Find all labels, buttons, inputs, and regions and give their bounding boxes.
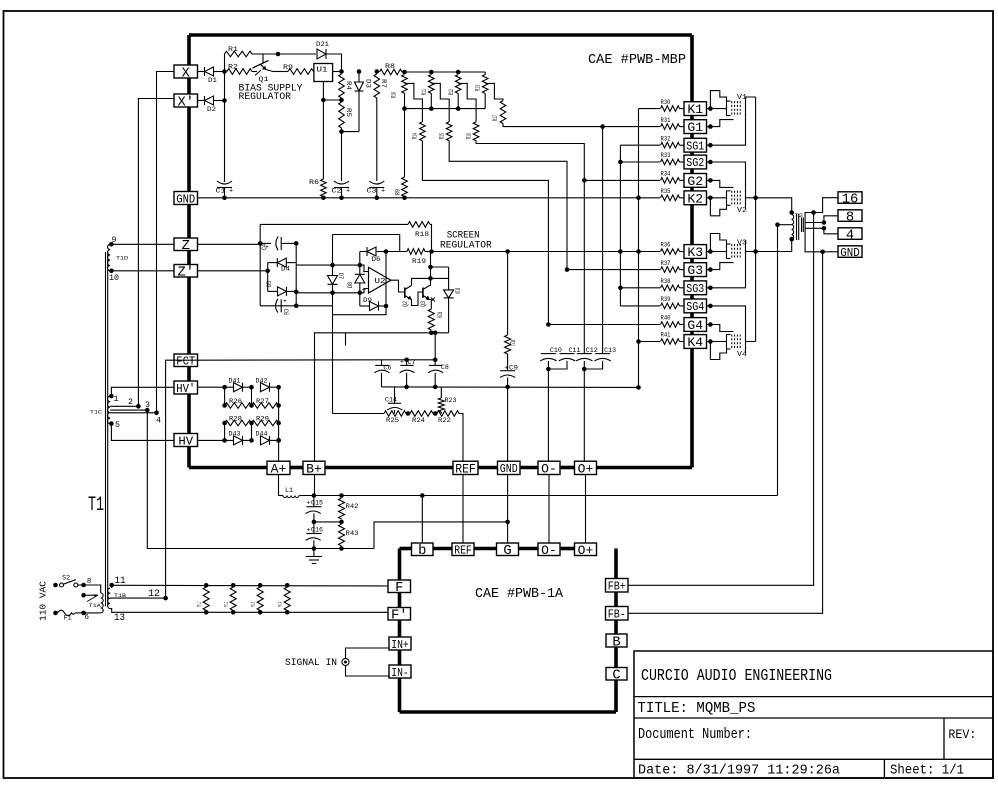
- svg-text:F: F: [395, 581, 403, 596]
- svg-text:13: 13: [114, 613, 125, 624]
- node Z to C4: [258, 241, 263, 246]
- port 4: [838, 228, 862, 240]
- svg-text:R4: R4: [345, 81, 352, 90]
- stub C5: [345, 333, 347, 346]
- capacitor C7: [404, 358, 409, 363]
- wire R22 to REF: [459, 414, 463, 462]
- svg-text:V4: V4: [737, 351, 748, 359]
- wire up to R1: [224, 54, 226, 72]
- svg-text:CAE #PWB-MBP: CAE #PWB-MBP: [588, 53, 686, 68]
- capacitor C9: [507, 354, 509, 371]
- wire SG3 row: [620, 287, 660, 289]
- svg-text:10: 10: [109, 274, 119, 283]
- port HV': [174, 381, 198, 394]
- wire SG2 row: [620, 161, 660, 163]
- vertical D6-D9 feedback: [385, 252, 387, 307]
- vertical left screen loop: [259, 224, 261, 305]
- port X: [174, 65, 198, 78]
- resistor R36: [661, 249, 680, 255]
- resistor R2: [227, 69, 252, 75]
- pin IN+: [389, 637, 411, 650]
- resistor R23: [440, 387, 442, 398]
- resistor R17: [500, 101, 506, 124]
- node T1C pin 3: [145, 408, 150, 413]
- node R4-R5: [339, 98, 344, 103]
- wire G2 row: [584, 179, 660, 181]
- wire O- to O-: [548, 475, 550, 544]
- node Z' bypass: [265, 269, 270, 274]
- resistor R30: [661, 106, 680, 112]
- node T1C pin 5: [109, 421, 114, 426]
- port SG3: [684, 281, 707, 295]
- svg-text:FB-: FB-: [608, 608, 626, 622]
- svg-text:D7: D7: [337, 273, 344, 279]
- svg-text:R26: R26: [229, 398, 242, 405]
- wire screen reg output: [432, 251, 508, 253]
- svg-text:IN-: IN-: [391, 666, 409, 680]
- resistor R33: [661, 159, 680, 165]
- svg-text:K3: K3: [687, 245, 703, 260]
- svg-text:CAE #PWB-1A: CAE #PWB-1A: [475, 587, 564, 602]
- wire pin 9 to Z: [111, 243, 174, 245]
- svg-text:R43: R43: [346, 530, 359, 537]
- wire U1 bottom: [322, 81, 324, 179]
- node T1C pin 4: [154, 411, 159, 416]
- svg-text:HV: HV: [178, 434, 193, 448]
- node T1D pin 10: [109, 269, 114, 274]
- port SG1: [684, 138, 707, 152]
- wire K2 row: [639, 197, 661, 199]
- svg-text:T1B: T1B: [114, 592, 127, 599]
- wire plate bottom to T2: [756, 239, 792, 251]
- node T1C pin 1: [109, 394, 114, 399]
- staircase R13 to R17: [485, 83, 503, 100]
- wire A+ to L1: [279, 475, 284, 496]
- wire to D3 bottom: [342, 131, 360, 133]
- resistor FIL2: [231, 583, 236, 588]
- resistor R38: [661, 285, 680, 291]
- port X': [174, 94, 198, 107]
- node D3 top: [357, 69, 362, 74]
- mid junction wire: [314, 521, 342, 523]
- svg-text:R1: R1: [228, 46, 238, 53]
- svg-text:C13: C13: [604, 347, 616, 354]
- svg-text:R28: R28: [229, 416, 242, 423]
- wire GND box to G pin: [507, 475, 509, 544]
- svg-text:FB+: FB+: [608, 580, 626, 594]
- svg-text:R30: R30: [661, 99, 671, 106]
- port GND T2: [838, 246, 862, 257]
- svg-text:+: +: [381, 188, 385, 196]
- port GND bottom: [498, 461, 521, 474]
- node K3 SG junction: [618, 249, 623, 254]
- node GND mid: [505, 520, 510, 525]
- svg-text:C6: C6: [383, 365, 391, 372]
- node U1 out: [339, 69, 344, 74]
- wire C7 C8 top link: [382, 359, 436, 361]
- svg-text:C6: C6: [282, 309, 289, 315]
- svg-text:R24: R24: [412, 417, 425, 424]
- svg-text:G3: G3: [687, 263, 703, 278]
- resistor R14: [420, 122, 426, 141]
- svg-text:G1: G1: [687, 120, 703, 135]
- svg-text:R34: R34: [661, 171, 671, 178]
- svg-text:1: 1: [114, 395, 119, 404]
- capacitor C14: [394, 387, 396, 403]
- resistor R13: [482, 75, 488, 94]
- svg-text:R39: R39: [661, 296, 671, 303]
- wire Q2 emitter to Q3 base: [412, 292, 423, 306]
- node G3 feed: [565, 267, 570, 272]
- port G2: [684, 174, 707, 188]
- wire junction down to C1: [224, 72, 226, 183]
- svg-text:+: +: [307, 527, 311, 534]
- svg-text:Q2: Q2: [402, 301, 409, 307]
- svg-text:D5: D5: [266, 281, 273, 287]
- node tap 12: [163, 596, 168, 601]
- port K4: [684, 335, 707, 349]
- pin C: [606, 668, 627, 681]
- pin IN-: [389, 665, 411, 678]
- capacitor C4: [276, 237, 278, 251]
- svg-text:FIL2: FIL2: [223, 602, 230, 607]
- svg-text:C9: C9: [509, 365, 518, 372]
- resistor R6: [321, 179, 327, 197]
- svg-text:GND: GND: [500, 462, 518, 476]
- node C4 right: [294, 241, 299, 246]
- port 8: [838, 210, 862, 222]
- resistor R12: [455, 75, 461, 94]
- node D5 right: [294, 290, 299, 295]
- node C bus GND: [505, 385, 510, 390]
- wire R15 to G3 line: [449, 141, 567, 270]
- svg-text:HV': HV': [176, 382, 195, 396]
- wire T2 secondary to 4: [805, 227, 824, 229]
- wire C6 row: [260, 305, 296, 307]
- wire screen reg top loop: [260, 223, 408, 225]
- svg-text:O-: O-: [541, 543, 557, 558]
- wire T2 secondary to GND: [805, 232, 823, 252]
- wire D21 to U1 output node: [326, 54, 342, 72]
- node R42 top: [339, 493, 344, 498]
- svg-text:2: 2: [128, 398, 133, 407]
- svg-text:R16: R16: [466, 133, 473, 139]
- ground bus lower: [312, 546, 317, 551]
- resistor R31: [661, 124, 680, 130]
- node X' junction: [222, 98, 227, 103]
- svg-text:REF: REF: [454, 544, 472, 558]
- wire FCT row to C6f top: [174, 359, 198, 361]
- svg-text:F1: F1: [64, 615, 72, 622]
- wire R16 to G2 line: [476, 141, 584, 181]
- node U1 bottom junction: [321, 98, 326, 103]
- wire REF to REF: [462, 475, 464, 544]
- GND bus: [198, 197, 639, 199]
- resistor R34: [661, 178, 680, 184]
- node K4 feed: [636, 339, 641, 344]
- svg-text:Z': Z': [177, 265, 194, 281]
- wire ground bus to GND vertical: [374, 522, 508, 549]
- svg-text:G2: G2: [687, 174, 703, 189]
- svg-text:D4: D4: [281, 266, 290, 273]
- node R20 bottom: [429, 331, 434, 336]
- transformer T1 core: [105, 252, 107, 606]
- svg-text:R11: R11: [421, 89, 428, 95]
- winding T1C: [107, 396, 110, 424]
- resistor R19: [407, 249, 425, 255]
- diode D44: [261, 436, 270, 445]
- wire pin 4: [110, 412, 156, 414]
- wire FB+ feedback: [628, 213, 814, 586]
- svg-text:R21: R21: [509, 340, 516, 346]
- svg-text:U2: U2: [375, 278, 386, 286]
- svg-text:+: +: [283, 298, 287, 305]
- board CAE #PWB-MBP outline: [189, 33, 692, 37]
- transistor Q2: [404, 288, 406, 298]
- resistor R41: [661, 339, 680, 345]
- resistor R29: [252, 420, 279, 426]
- wire S2 to T1A: [78, 585, 101, 593]
- svg-text:C: C: [612, 669, 620, 684]
- wire U2 out to Q2: [391, 280, 405, 292]
- wire bridge output to A+: [278, 387, 280, 461]
- wire FCT to T1B tap 12: [166, 360, 174, 598]
- svg-text:S2: S2: [62, 575, 70, 582]
- resistor R35: [661, 195, 680, 201]
- plate bus vertical: [755, 97, 757, 342]
- wire V3 plate to bus: [746, 251, 756, 253]
- pin F': [388, 608, 411, 621]
- svg-text:R38: R38: [661, 278, 671, 285]
- resistor R9a: [273, 71, 288, 73]
- resistor R5: [339, 102, 345, 128]
- resistor FIL1: [204, 583, 209, 588]
- port SG2: [684, 155, 707, 169]
- svg-text:SG3: SG3: [686, 282, 704, 296]
- node K3 R21 junction: [505, 249, 510, 254]
- node b pin: [420, 493, 425, 498]
- node R7 top: [375, 69, 380, 74]
- wire Q3 collector: [430, 252, 431, 286]
- svg-text:G4: G4: [687, 318, 703, 333]
- port Z': [174, 265, 198, 278]
- svg-text:R8: R8: [385, 63, 395, 70]
- capacitor C13: [595, 353, 610, 355]
- pin FB-: [606, 607, 629, 621]
- svg-text:U1: U1: [317, 67, 328, 75]
- port GND left: [174, 192, 198, 205]
- port FCT: [174, 354, 198, 367]
- wire pin 5 to HV: [111, 424, 174, 441]
- wire to D10: [431, 278, 449, 290]
- resistor R9 bleeder: [404, 109, 406, 177]
- svg-text:R37: R37: [661, 260, 671, 267]
- svg-text:Q1: Q1: [259, 76, 269, 83]
- pin G: [497, 543, 519, 556]
- svg-text:CURCIO AUDIO ENGINEERING: CURCIO AUDIO ENGINEERING: [641, 667, 832, 686]
- transformer T2: [789, 210, 794, 215]
- svg-text:Sheet: 1/1: Sheet: 1/1: [890, 763, 964, 779]
- resistor R26: [224, 387, 226, 405]
- winding T1B: [108, 588, 111, 609]
- wire K4 row: [639, 341, 661, 343]
- svg-text:R27: R27: [256, 398, 269, 405]
- wire R5 to C2: [341, 128, 343, 181]
- wire Z row to C4: [198, 243, 261, 245]
- port REF top: [453, 461, 478, 474]
- wire pin3 to ground bus: [147, 410, 374, 548]
- svg-text:R5: R5: [345, 108, 352, 117]
- fuse F1: [58, 610, 76, 615]
- node C15 top: [312, 493, 317, 498]
- svg-text:R10: R10: [391, 92, 398, 98]
- svg-text:GND: GND: [840, 246, 860, 260]
- svg-text:SG4: SG4: [686, 300, 704, 314]
- wire C12 C13 bottoms: [583, 361, 585, 461]
- svg-text:C3: C3: [367, 188, 377, 195]
- resistor R37: [661, 267, 680, 273]
- svg-text:16: 16: [842, 192, 859, 207]
- port O+ top: [575, 461, 597, 474]
- wire R14 to G4 line: [422, 141, 548, 325]
- svg-text:4: 4: [156, 417, 161, 426]
- resistor R11: [429, 75, 435, 94]
- staircase R10 to R14: [405, 83, 423, 121]
- svg-text:+: +: [346, 188, 350, 196]
- diode D3 zener: [358, 72, 360, 83]
- node D9 right: [384, 304, 389, 309]
- svg-text:R23: R23: [445, 397, 457, 404]
- svg-text:R33: R33: [661, 152, 671, 159]
- svg-text:X': X': [177, 94, 194, 110]
- diode D2: [204, 96, 206, 105]
- capacitor C10: [541, 353, 556, 355]
- node Q collector junction: [428, 276, 433, 281]
- node AC top: [53, 583, 58, 588]
- wire C10 C11 bottoms: [547, 361, 549, 461]
- resistor R16: [473, 122, 479, 141]
- wire U2 inverting input: [360, 265, 369, 271]
- svg-text:+: +: [505, 365, 509, 372]
- T2 center tap wire B+: [775, 222, 780, 227]
- wire HV' row: [198, 386, 234, 388]
- svg-text:+: +: [229, 188, 233, 196]
- svg-text:3: 3: [145, 401, 150, 410]
- wire D7 D8 bottom row: [296, 292, 360, 294]
- svg-text:B: B: [612, 635, 620, 650]
- wire R1 to D21: [252, 53, 316, 55]
- wire K3 row from screen regulator: [432, 251, 661, 253]
- svg-text:F': F': [391, 608, 408, 624]
- svg-text:O+: O+: [578, 543, 594, 558]
- capacitor C11: [560, 353, 575, 355]
- svg-text:R29: R29: [256, 416, 269, 423]
- port K1: [684, 102, 707, 116]
- wire B+ rail to D10 bottom: [315, 333, 449, 461]
- winding T1A: [101, 593, 103, 613]
- wire to R4 bottom: [323, 99, 341, 101]
- resistor R25: [384, 411, 406, 417]
- wire pin 10 to Z': [111, 270, 174, 272]
- pin O+ 1A: [575, 543, 597, 556]
- resistor FIL4: [285, 583, 290, 588]
- wire X' to D2: [198, 100, 205, 102]
- svg-text:D44: D44: [256, 431, 268, 438]
- svg-text:Q3: Q3: [420, 301, 427, 307]
- svg-text:FCT: FCT: [176, 355, 195, 369]
- wire Q3 emitter to R20: [427, 300, 432, 310]
- resistor R43: [339, 524, 345, 546]
- svg-text:R17: R17: [492, 115, 499, 121]
- wire T2 secondary to 16: [805, 213, 814, 218]
- node G4 feed: [546, 322, 551, 327]
- resistor R4: [339, 74, 345, 98]
- wire C9 to GND box: [507, 387, 509, 461]
- svg-text:+: +: [400, 359, 404, 366]
- wire tap 12: [110, 597, 165, 599]
- tube V2: [726, 191, 728, 206]
- svg-text:TITLE: MQMB_PS: TITLE: MQMB_PS: [637, 701, 755, 717]
- diode D5: [268, 290, 278, 292]
- wire R18 down: [430, 224, 432, 251]
- svg-text:110 VAC: 110 VAC: [38, 581, 49, 621]
- resistor R20: [428, 309, 434, 330]
- resistor R18: [408, 222, 430, 228]
- T1A tap arrow: [81, 593, 86, 598]
- resistor R42: [339, 498, 345, 519]
- wire pin 1 to HV': [111, 387, 174, 396]
- transistor Q3: [422, 288, 424, 298]
- svg-text:SIGNAL IN: SIGNAL IN: [285, 658, 337, 669]
- resistor R22: [437, 411, 459, 417]
- port G3: [684, 263, 707, 277]
- svg-text:R35: R35: [661, 188, 671, 195]
- wire D7 D8 top row: [296, 264, 360, 266]
- svg-text:R31: R31: [661, 117, 671, 124]
- svg-text:b: b: [418, 543, 426, 559]
- resistor FIL3: [258, 583, 263, 588]
- wire X vertical: [157, 72, 175, 413]
- wire U1 out: [333, 71, 342, 73]
- svg-text:T1C: T1C: [90, 409, 103, 416]
- resistor R15: [446, 122, 452, 141]
- svg-text:GND: GND: [176, 192, 195, 206]
- svg-text:FIL4: FIL4: [277, 602, 284, 607]
- title block: [634, 651, 993, 778]
- staircase R12 to R16: [458, 83, 476, 121]
- bias mid bus: [405, 108, 486, 110]
- svg-text:D41: D41: [229, 378, 241, 385]
- svg-text:R9: R9: [395, 189, 402, 195]
- svg-text:C10: C10: [550, 347, 562, 354]
- node SG3 feed: [618, 286, 623, 291]
- switch S2: [60, 583, 64, 587]
- svg-text:D8: D8: [347, 282, 354, 288]
- svg-text:C12: C12: [586, 347, 598, 354]
- wire X' vertical: [138, 99, 174, 407]
- svg-text:IN+: IN+: [391, 638, 409, 652]
- svg-text:SG2: SG2: [686, 156, 704, 170]
- capacitor C12: [577, 353, 592, 355]
- svg-text:V2: V2: [737, 207, 747, 215]
- board CAE #PWB-1A outline: [400, 547, 412, 551]
- resistor R10: [402, 75, 408, 94]
- svg-text:A+: A+: [271, 461, 287, 476]
- svg-text:R13: R13: [475, 85, 482, 91]
- wire R7 to C3: [376, 98, 378, 181]
- wire plate top to T2: [756, 198, 792, 213]
- svg-text:R18: R18: [415, 231, 429, 238]
